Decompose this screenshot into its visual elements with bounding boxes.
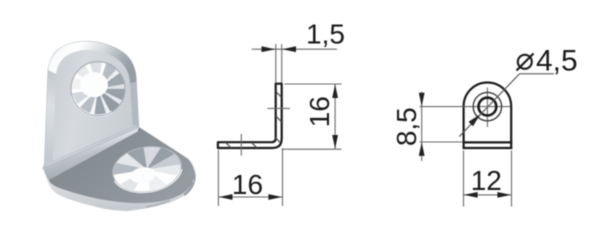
arrow up right 16 bbox=[332, 84, 338, 98]
flange edge streaks right end bbox=[184, 163, 194, 195]
arrow right of 1,5 bbox=[282, 46, 296, 52]
vertical centerline of hole bbox=[486, 88, 488, 128]
8,5 arrow up bbox=[419, 142, 425, 156]
top countersunk hole (starburst) bbox=[71, 62, 125, 116]
extension line right of dim 1,5 bbox=[281, 44, 283, 83]
hole centerline in vertical leg bbox=[268, 107, 291, 109]
extension line left of dim 1,5 bbox=[275, 44, 277, 83]
12 dimension line bbox=[464, 194, 512, 196]
extension line left of bottom dim 16 bbox=[217, 150, 219, 206]
flange base (edge band silhouette) bbox=[45, 127, 196, 211]
dimension line bottom 16 bbox=[218, 196, 282, 198]
tab (vertical leg face) bbox=[43, 41, 139, 168]
8,5 arrow down bbox=[419, 93, 425, 107]
12 arrow right bbox=[497, 192, 511, 198]
hatch lines in vertical leg bbox=[276, 92, 282, 98]
hole centerline in horizontal leg bbox=[240, 134, 242, 156]
flange bottom edge line bbox=[463, 147, 513, 149]
svg-text:8,5: 8,5 bbox=[391, 107, 422, 146]
tab face bottom crease bbox=[44, 126, 137, 166]
svg-text:16: 16 bbox=[304, 96, 335, 127]
extension line right of bottom dim 16 bbox=[282, 149, 284, 207]
arrow right bottom 16 bbox=[268, 194, 282, 200]
extension line top of right dim 16 bbox=[285, 83, 342, 85]
bend curl band bbox=[43, 126, 139, 180]
flange top edge line bbox=[463, 141, 513, 143]
hatch lines in horizontal leg bbox=[225, 142, 231, 148]
hole circle 4,5 bbox=[479, 98, 497, 116]
arrow down right 16 bbox=[332, 135, 338, 149]
diameter symbol bbox=[517, 54, 534, 71]
svg-text:4,5: 4,5 bbox=[536, 45, 578, 78]
svg-text:12: 12 bbox=[471, 165, 502, 196]
bottom countersunk hole (starburst) bbox=[109, 142, 184, 197]
tab cap top band bbox=[48, 41, 136, 83]
flange top surface bbox=[49, 127, 195, 203]
dimension line 1,5 bbox=[252, 48, 337, 50]
countersink circle bbox=[473, 92, 501, 120]
extension line bottom of right dim 16 bbox=[282, 148, 342, 150]
svg-text:1,5: 1,5 bbox=[306, 19, 345, 50]
arrow left bottom 16 bbox=[219, 194, 233, 200]
L profile outline bbox=[218, 84, 282, 148]
12 arrow left bbox=[464, 192, 478, 198]
front outline (rounded tab) bbox=[464, 83, 512, 149]
leader line for diameter bbox=[459, 74, 520, 137]
leader landing line bbox=[520, 73, 554, 75]
12 extension line left bbox=[463, 151, 465, 207]
arrow left of 1,5 bbox=[262, 46, 276, 52]
tab right edge shade bbox=[130, 82, 139, 127]
tab left side band bbox=[45, 48, 66, 164]
12 extension line right bbox=[511, 151, 513, 207]
8,5 dimension line bbox=[421, 92, 423, 162]
horizontal centerline / 8,5 top extension bbox=[420, 106, 511, 108]
8,5 bottom extension line bbox=[420, 141, 463, 143]
leader arrow bbox=[469, 114, 481, 126]
dimension line right 16 bbox=[334, 84, 336, 149]
svg-text:16: 16 bbox=[232, 169, 263, 200]
